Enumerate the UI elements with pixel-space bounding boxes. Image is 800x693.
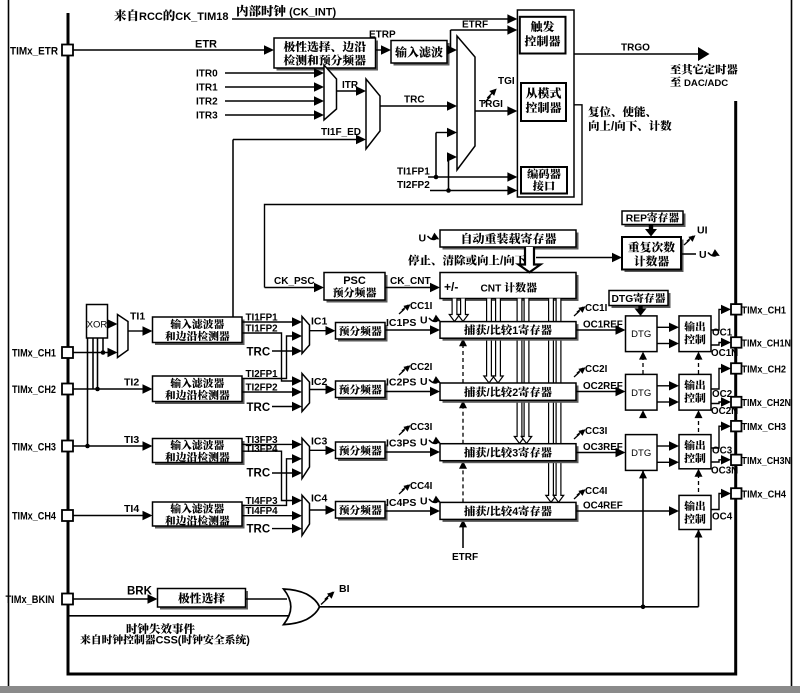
svg-text:TI4FP4: TI4FP4 — [246, 506, 279, 517]
svg-text:UI: UI — [697, 225, 708, 237]
svg-text:OC1N: OC1N — [711, 348, 738, 359]
wire DTG3 to output control — [657, 445, 671, 447]
page bottom grey bar — [0, 686, 800, 693]
pin TIMx_CH1 — [62, 347, 73, 358]
text 预分频器(PSC) — [333, 287, 343, 298]
svg-text:OC3REF: OC3REF — [583, 442, 623, 453]
hollow arrows CNT to CC2 register — [484, 299, 494, 384]
box slave mode controller — [521, 83, 566, 121]
wire OC4REF — [576, 510, 671, 512]
text output control ch1 l2 — [684, 334, 695, 344]
svg-text:TIMx_CH3: TIMx_CH3 — [12, 442, 56, 454]
text prescaler ch1 — [339, 326, 349, 336]
gate OR break — [284, 589, 320, 625]
pin TIMx_CH1 — [731, 304, 742, 315]
svg-text:IC4PS: IC4PS — [386, 497, 416, 509]
svg-text:CC2I: CC2I — [585, 364, 608, 375]
text filter ch2 line2 — [165, 390, 175, 400]
svg-text:TI1FP1: TI1FP1 — [397, 167, 430, 178]
text prescaler ch2 — [339, 384, 349, 394]
wire TI2FP1 cross up — [242, 336, 295, 379]
svg-text:ETRF: ETRF — [452, 552, 478, 563]
svg-text:OC3: OC3 — [712, 446, 733, 457]
wire IC1PS — [385, 329, 432, 331]
text filter ch1 line1 — [170, 319, 181, 329]
text output control ch2 l2 — [684, 393, 695, 403]
pin TIMx_CH3 — [731, 421, 742, 432]
wire BI — [320, 606, 699, 608]
wire CK_PSC — [265, 287, 316, 289]
wire TI1FP1 — [242, 321, 294, 323]
wire TI3 from pin — [73, 445, 144, 447]
svg-text:CC2I: CC2I — [410, 362, 433, 373]
mux IC4 — [302, 495, 310, 535]
wire CSS event to OR gate — [70, 615, 291, 617]
svg-text:OC4: OC4 — [712, 512, 733, 523]
box prescaler ch2 — [338, 384, 388, 401]
text capture/compare 1 — [464, 324, 475, 335]
wire OC2REF — [576, 391, 617, 393]
pin TIMx_CH1N — [731, 337, 742, 348]
wire OC3 — [711, 426, 723, 448]
wire TRGI — [475, 110, 509, 112]
box PSC prescaler — [327, 275, 388, 303]
svg-text:U: U — [419, 233, 427, 245]
text 时钟失效事件 — [127, 623, 138, 634]
svg-text:CK_PSC: CK_PSC — [274, 276, 315, 287]
svg-text:4: 4 — [512, 506, 518, 518]
text 重复次数 — [628, 241, 639, 252]
box XOR — [87, 305, 108, 339]
event arrow TGI — [484, 90, 496, 104]
svg-text:TIMx_CH1: TIMx_CH1 — [742, 304, 787, 316]
box capture/compare 1 register — [443, 324, 579, 341]
mux TI1 selector — [118, 315, 129, 358]
mux IC3 — [302, 438, 310, 478]
svg-text:OC3N: OC3N — [711, 466, 738, 477]
text 自动重装载寄存器 — [463, 233, 472, 244]
wire TRC ch4 — [272, 528, 294, 530]
svg-text:IC3: IC3 — [311, 436, 328, 448]
hollow arrows CNT to CC3 register — [514, 299, 524, 444]
wire TI2FP2 branch up to TRGI mux — [448, 157, 450, 191]
wire OC1N — [711, 343, 723, 346]
pin TIMx_CH2 — [731, 363, 742, 374]
svg-text:TRGI: TRGI — [479, 99, 503, 110]
event CC1I left — [399, 305, 408, 314]
wire TI1FP1 to encoder — [428, 176, 509, 178]
wire TRC ch3 — [272, 472, 294, 474]
text 检测和预分频器 — [284, 54, 295, 65]
wire XOR input from CH2 — [92, 338, 94, 389]
hollow arrows CNT to CC1 register — [449, 299, 459, 322]
svg-text:IC1: IC1 — [311, 316, 328, 328]
text 计数器(rep) — [634, 255, 645, 266]
box output control ch4 — [679, 495, 711, 529]
text capture/compare 4 — [464, 506, 475, 517]
box DTG ch1 — [626, 316, 658, 352]
label 内部时钟 (CK_INT) — [237, 5, 248, 17]
event arrow BI — [321, 592, 333, 605]
svg-text:U: U — [420, 315, 428, 327]
wire ITR3 — [225, 114, 316, 116]
wire dashed CC2 to CC1 — [462, 344, 464, 383]
svg-text:ETR: ETR — [195, 39, 217, 51]
text 极性选择、边沿 — [284, 41, 295, 52]
pin TIMx_CH4 — [62, 510, 73, 521]
wire ETRP — [376, 49, 383, 51]
hollow arrows CNT to CC4 register — [546, 299, 556, 503]
box DTG ch3 — [626, 435, 658, 471]
wire IC3PS — [385, 451, 432, 453]
text output control ch2 l1 — [684, 380, 695, 390]
hollow arrow auto-reload to CNT — [519, 247, 541, 272]
event CC3I right — [574, 430, 583, 439]
wire OC1REF — [576, 329, 617, 331]
text filter ch2 line1 — [170, 378, 181, 388]
pin TIMx_CH3N — [731, 455, 742, 466]
wire TI3FP3 — [242, 443, 294, 445]
svg-text:TI1FP2: TI1FP2 — [246, 324, 279, 335]
svg-text:IC2PS: IC2PS — [386, 377, 416, 389]
event CC2I left — [399, 366, 408, 375]
svg-text:(CK_INT): (CK_INT) — [289, 7, 336, 19]
wire dashed CC4 to CC3 — [462, 466, 464, 502]
svg-text:CC4I: CC4I — [585, 486, 608, 497]
svg-text:CC4I: CC4I — [410, 481, 433, 492]
wire TI4FP3 cross up — [242, 459, 295, 506]
svg-text:TRC: TRC — [247, 468, 271, 480]
wire to repetition counter — [536, 257, 614, 259]
text capture/compare 3 — [464, 447, 475, 458]
wire to OR gate 1 — [246, 598, 288, 600]
wire DTG2 to output control — [657, 385, 671, 387]
svg-text:U: U — [420, 496, 428, 508]
svg-text:TI2: TI2 — [124, 377, 139, 389]
svg-text:TIMx_CH1N: TIMx_CH1N — [742, 338, 792, 350]
text 控制器(slave) — [526, 102, 538, 113]
text prescaler ch3 — [339, 445, 349, 455]
svg-text:CNT: CNT — [481, 284, 503, 295]
svg-text:TIMx_CH2: TIMx_CH2 — [12, 384, 56, 396]
wire IC4 — [310, 509, 328, 511]
svg-text:TIMx_BKIN: TIMx_BKIN — [6, 594, 55, 606]
box output control ch3 — [679, 435, 711, 469]
pin TIMx_ETR — [62, 45, 73, 56]
wire IC2PS — [385, 391, 432, 393]
mux IC1 — [302, 317, 310, 354]
svg-text:DTG: DTG — [631, 448, 651, 459]
event arrow UI — [684, 236, 693, 245]
event CC4I left — [399, 485, 408, 494]
wire ETRF branch up — [450, 30, 452, 50]
text filter ch1 line2 — [165, 331, 175, 341]
svg-text:DTG: DTG — [631, 388, 651, 399]
wire OC3REF — [576, 452, 617, 454]
svg-text:CC3I: CC3I — [585, 426, 608, 437]
event CC2I right — [574, 368, 583, 377]
svg-text:TI1FP1: TI1FP1 — [246, 313, 279, 324]
box controller outer — [517, 10, 574, 197]
svg-text:U: U — [420, 376, 428, 388]
text 至 DAC/ADC — [670, 76, 681, 86]
pin TIMx_CH2N — [731, 397, 742, 408]
wire IC1 — [310, 330, 328, 332]
svg-text:REP: REP — [626, 214, 647, 225]
wire TI1FP2 cross down — [242, 333, 295, 381]
text 从模式 — [526, 88, 538, 99]
box prescaler ch3 — [338, 445, 388, 462]
wire TI1F_ED — [233, 139, 358, 141]
svg-text:ETRP: ETRP — [369, 30, 396, 41]
text capture/compare 2 — [464, 386, 475, 397]
wire TI2 from pin — [73, 388, 144, 390]
svg-text:U: U — [699, 249, 707, 261]
text 接口 — [533, 180, 544, 191]
wire XOR input from CH3 — [87, 338, 89, 446]
wire IC2 — [310, 389, 328, 391]
wire OC2N — [711, 402, 723, 404]
wire ETRF to TRGI mux — [447, 49, 449, 51]
text 停止、清除或向上/向下 — [408, 255, 419, 266]
text 极性选择 bottom — [178, 592, 189, 603]
svg-text:+/-: +/- — [444, 280, 458, 294]
svg-text:TIMx_CH3N: TIMx_CH3N — [742, 455, 792, 467]
wire dashed CC3 to CC2 — [462, 406, 464, 444]
wire XOR out — [108, 323, 110, 325]
wire TI2FP2 to encoder — [430, 190, 509, 192]
svg-text:TRC: TRC — [247, 402, 271, 414]
box trigger controller — [520, 17, 566, 54]
box input filter 输入滤波 — [394, 43, 450, 66]
text 输入滤波 — [395, 46, 407, 58]
box output control ch1 — [679, 316, 711, 352]
svg-text:ITR2: ITR2 — [196, 97, 218, 108]
mux ITR selector — [324, 65, 337, 120]
pin TIMx_CH4 — [731, 488, 742, 499]
svg-text:ITR0: ITR0 — [196, 69, 218, 80]
box CNT counter — [443, 275, 579, 301]
box polarity/edge-detect/prescaler — [277, 41, 379, 71]
wire TI1 from pin — [73, 352, 109, 354]
wire BI vertical to DTG column — [642, 470, 644, 606]
text prescaler ch4 — [339, 505, 349, 515]
svg-text:TRGO: TRGO — [621, 43, 650, 54]
svg-text:U: U — [420, 437, 428, 449]
main diagram frame (thick) — [68, 13, 736, 674]
svg-text:/: / — [487, 448, 490, 460]
wire OC3N — [711, 460, 723, 462]
svg-text:TI3: TI3 — [124, 434, 139, 446]
box DTG ch2 — [626, 374, 658, 410]
svg-text:TRC: TRC — [404, 95, 425, 106]
wire ITR0 — [225, 72, 316, 74]
svg-text:TIMx_CH1: TIMx_CH1 — [12, 348, 56, 360]
text 编码器 — [527, 168, 538, 179]
svg-text:TGI: TGI — [498, 76, 515, 87]
wire TI2FP2 — [242, 391, 294, 393]
svg-text:): ) — [246, 635, 250, 647]
svg-text:TIMx_CH4: TIMx_CH4 — [12, 511, 57, 523]
wire TRGO — [574, 53, 698, 55]
wire BI vertical to output-control column — [698, 530, 700, 607]
wire TI4FP4 — [242, 515, 294, 517]
text output control ch3 l1 — [684, 440, 695, 450]
svg-text:ITR1: ITR1 — [196, 83, 218, 94]
pin TIMx_BKIN — [62, 594, 73, 605]
wire TI4 from pin — [73, 515, 144, 517]
box auto-reload register — [443, 233, 579, 250]
svg-text:BRK: BRK — [127, 586, 153, 598]
wire XOR input from CH1 — [102, 338, 104, 353]
box polarity selection — [160, 591, 248, 610]
svg-text:TI2FP1: TI2FP1 — [246, 369, 279, 380]
svg-text:CC1I: CC1I — [410, 301, 433, 312]
wire TI3FP4 cross down — [242, 451, 295, 500]
svg-text:CSS(: CSS( — [156, 635, 182, 647]
box output control ch2 — [679, 374, 711, 410]
svg-text:CK_CNT: CK_CNT — [390, 276, 431, 287]
wire ITR to TRC mux — [337, 90, 358, 92]
wire DTG1 to output control — [657, 326, 671, 328]
text 向上/向下、计数 — [589, 120, 599, 131]
svg-text:TI1F_ED: TI1F_ED — [321, 127, 361, 138]
svg-text:TRC: TRC — [247, 523, 271, 535]
event CC4I right — [574, 490, 583, 499]
event CC1I right — [574, 307, 583, 316]
arrow DTG reg down — [638, 306, 642, 310]
svg-text:2: 2 — [512, 387, 518, 399]
svg-text:ITR3: ITR3 — [196, 111, 218, 122]
wire TRC to TRGI mux — [380, 105, 449, 107]
label 来自RCC的CK_TIM18 — [114, 9, 126, 21]
box REP register — [625, 214, 686, 228]
svg-text:OC2REF: OC2REF — [583, 381, 623, 392]
wire OC2 — [711, 369, 723, 390]
svg-text:OC1: OC1 — [712, 328, 733, 339]
svg-text:RCC: RCC — [139, 11, 163, 23]
wire TI1FP1 branch up to TRGI mux — [435, 133, 437, 178]
svg-text:PSC: PSC — [343, 275, 366, 287]
wire TRC ch1 — [272, 350, 294, 352]
svg-text:TRC: TRC — [247, 347, 271, 359]
text filter ch4 line1 — [170, 503, 181, 513]
svg-text:TIMx_CH2: TIMx_CH2 — [742, 364, 787, 376]
arrow REP to repetition counter — [649, 225, 653, 230]
text 触发 — [531, 21, 543, 32]
wire ITR1 — [225, 86, 316, 88]
svg-text:IC3PS: IC3PS — [386, 438, 416, 450]
box input filter ch2 — [155, 379, 245, 405]
svg-text:/: / — [487, 506, 490, 518]
wire ETRF into CC4 register — [462, 519, 464, 548]
svg-text:CC1I: CC1I — [585, 303, 608, 314]
box prescaler ch4 — [338, 504, 388, 521]
svg-text:DAC/ADC: DAC/ADC — [684, 78, 728, 89]
box DTG register — [612, 293, 671, 308]
svg-text:IC4: IC4 — [311, 493, 328, 505]
wire CK_INT to trigger controller — [232, 18, 509, 20]
svg-text:OC4REF: OC4REF — [583, 501, 623, 512]
pin TIMx_CH2 — [62, 384, 73, 395]
page outer border right — [791, 0, 793, 686]
text output control ch4 l2 — [684, 514, 695, 524]
wire TRC ch2 — [272, 406, 294, 408]
svg-text:TIMx_CH2N: TIMx_CH2N — [742, 397, 792, 409]
box encoder interface — [521, 167, 567, 194]
text filter ch3 line2 — [165, 452, 175, 462]
text output control ch4 l1 — [684, 501, 695, 511]
svg-text:DTG: DTG — [631, 329, 651, 340]
wire IC3 — [310, 449, 328, 451]
wire CK_CNT — [385, 287, 432, 289]
box input filter ch3 — [155, 441, 245, 465]
svg-text:/: / — [487, 387, 490, 399]
text filter ch4 line2 — [165, 515, 175, 525]
svg-text:TIMx_CH3: TIMx_CH3 — [742, 421, 787, 433]
text 至其它定时器 — [670, 64, 681, 74]
svg-text:TI3FP4: TI3FP4 — [246, 444, 279, 455]
svg-text:TI4: TI4 — [124, 503, 139, 515]
wire reset/enable feedback — [265, 105, 583, 288]
wire OC4 — [711, 494, 723, 510]
box repetition counter — [625, 240, 684, 273]
svg-text:ETRF: ETRF — [462, 20, 488, 31]
event CC3I left — [399, 426, 408, 435]
text 来自时钟控制器CSS — [80, 634, 90, 644]
box capture/compare 2 register — [443, 386, 579, 403]
svg-text:IC2: IC2 — [311, 376, 328, 388]
svg-text:CK_TIM18: CK_TIM18 — [175, 11, 228, 23]
box prescaler ch1 — [338, 325, 388, 342]
pin TIMx_CH3 — [62, 441, 73, 452]
wire ETR — [73, 49, 266, 51]
svg-text:TIMx_CH4: TIMx_CH4 — [742, 489, 787, 501]
svg-text:TI1: TI1 — [130, 311, 145, 323]
mux TRGI selector — [457, 36, 475, 170]
text 复位、使能、 — [588, 106, 599, 117]
text output control ch3 l2 — [684, 453, 695, 463]
wire TI1F_ED vertical from TI1 filter — [232, 140, 234, 318]
svg-text:TI2FP2: TI2FP2 — [397, 180, 430, 191]
page outer border left — [8, 0, 10, 686]
text 控制器 — [525, 35, 537, 46]
mux IC2 — [302, 374, 310, 412]
svg-text:DTG: DTG — [612, 294, 634, 305]
svg-text:/: / — [487, 325, 490, 337]
box input filter ch4 — [155, 505, 245, 529]
wire ITR2 — [225, 100, 316, 102]
box capture/compare 3 register — [443, 446, 579, 463]
wire U out of repetition counter — [681, 253, 696, 255]
svg-text:CC3I: CC3I — [410, 422, 433, 433]
svg-text:TIMx_ETR: TIMx_ETR — [10, 46, 58, 58]
svg-text:3: 3 — [512, 448, 518, 460]
svg-text:IC1PS: IC1PS — [386, 317, 416, 329]
svg-text:XOR: XOR — [87, 320, 108, 331]
svg-text:1: 1 — [512, 325, 518, 337]
wire TI1 mux out — [128, 330, 144, 332]
wire IC4PS — [385, 510, 432, 512]
text output control ch1 l1 — [684, 321, 695, 331]
svg-text:TI2FP2: TI2FP2 — [246, 383, 279, 394]
svg-text:OC1REF: OC1REF — [583, 320, 623, 331]
wire OC1 — [711, 309, 723, 330]
wire BRK — [73, 598, 149, 600]
box input filter ch1 — [155, 320, 245, 346]
svg-text:BI: BI — [339, 583, 350, 595]
text filter ch3 line1 — [170, 440, 181, 450]
